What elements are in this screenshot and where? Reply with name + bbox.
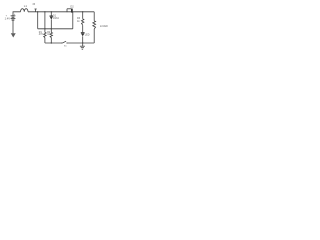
svg-text:470: 470 <box>39 33 44 36</box>
resistor R3 <box>82 19 84 25</box>
wire bottom rail left segment <box>45 42 62 44</box>
junction mid rail R2 <box>51 28 52 29</box>
svg-text:LED: LED <box>85 33 90 36</box>
svg-text:S1: S1 <box>64 46 67 48</box>
junction mid rail R1 <box>44 28 45 29</box>
switch S1 <box>61 41 67 43</box>
wire load bottom lead to bottom rail <box>93 29 95 43</box>
wire top rail from battery to inductor <box>13 12 21 16</box>
junction node A3 <box>51 11 52 12</box>
ground arrow below battery <box>11 33 16 37</box>
wire vertical at R1 branch <box>44 12 46 33</box>
wire R2 bottom lead <box>50 38 52 44</box>
svg-text:1N34: 1N34 <box>53 17 59 20</box>
svg-text:1.4V: 1.4V <box>5 17 11 21</box>
junction node A2 <box>44 11 45 12</box>
ground below LED branch <box>80 43 85 49</box>
junction node A4 <box>82 11 83 12</box>
wire vertical node A to mid rail left end <box>37 12 39 29</box>
wire R3 to LED <box>82 25 84 32</box>
wire top rail from inductor to load corner <box>28 11 94 13</box>
inductor L1 <box>21 9 29 12</box>
wire battery negative lead <box>12 20 14 33</box>
svg-text:33: 33 <box>32 3 35 6</box>
junction bottom rail R2 <box>51 42 52 43</box>
svg-text:D2: D2 <box>70 4 74 8</box>
junction node A1 <box>37 11 38 12</box>
resistor R2 <box>50 32 52 37</box>
resistor RL load <box>93 21 96 29</box>
wire D1 bottom lead <box>50 20 52 33</box>
wire LED branch top lead <box>82 12 84 19</box>
wire R1 bottom lead <box>44 38 46 44</box>
junction bottom rail LED <box>82 42 83 43</box>
diode D1 <box>50 16 54 20</box>
inductor tap tick <box>35 9 37 12</box>
wire vertical mid rail right end to top rail <box>72 12 74 29</box>
LED D3 <box>81 32 85 36</box>
wire mid rail <box>38 28 73 30</box>
battery B1 <box>11 16 16 20</box>
svg-text:LOAD: LOAD <box>100 24 108 28</box>
wire LED to bottom rail <box>82 36 84 43</box>
svg-text:1k: 1k <box>77 20 80 23</box>
resistor R1 <box>44 32 46 37</box>
wire bottom rail right segment <box>67 42 94 44</box>
wire load right vertical top <box>93 12 95 21</box>
diode D2 series on top rail <box>67 9 72 13</box>
svg-text:+: + <box>14 13 16 16</box>
svg-text:L1: L1 <box>24 4 28 8</box>
wire D1 top lead <box>50 12 52 16</box>
